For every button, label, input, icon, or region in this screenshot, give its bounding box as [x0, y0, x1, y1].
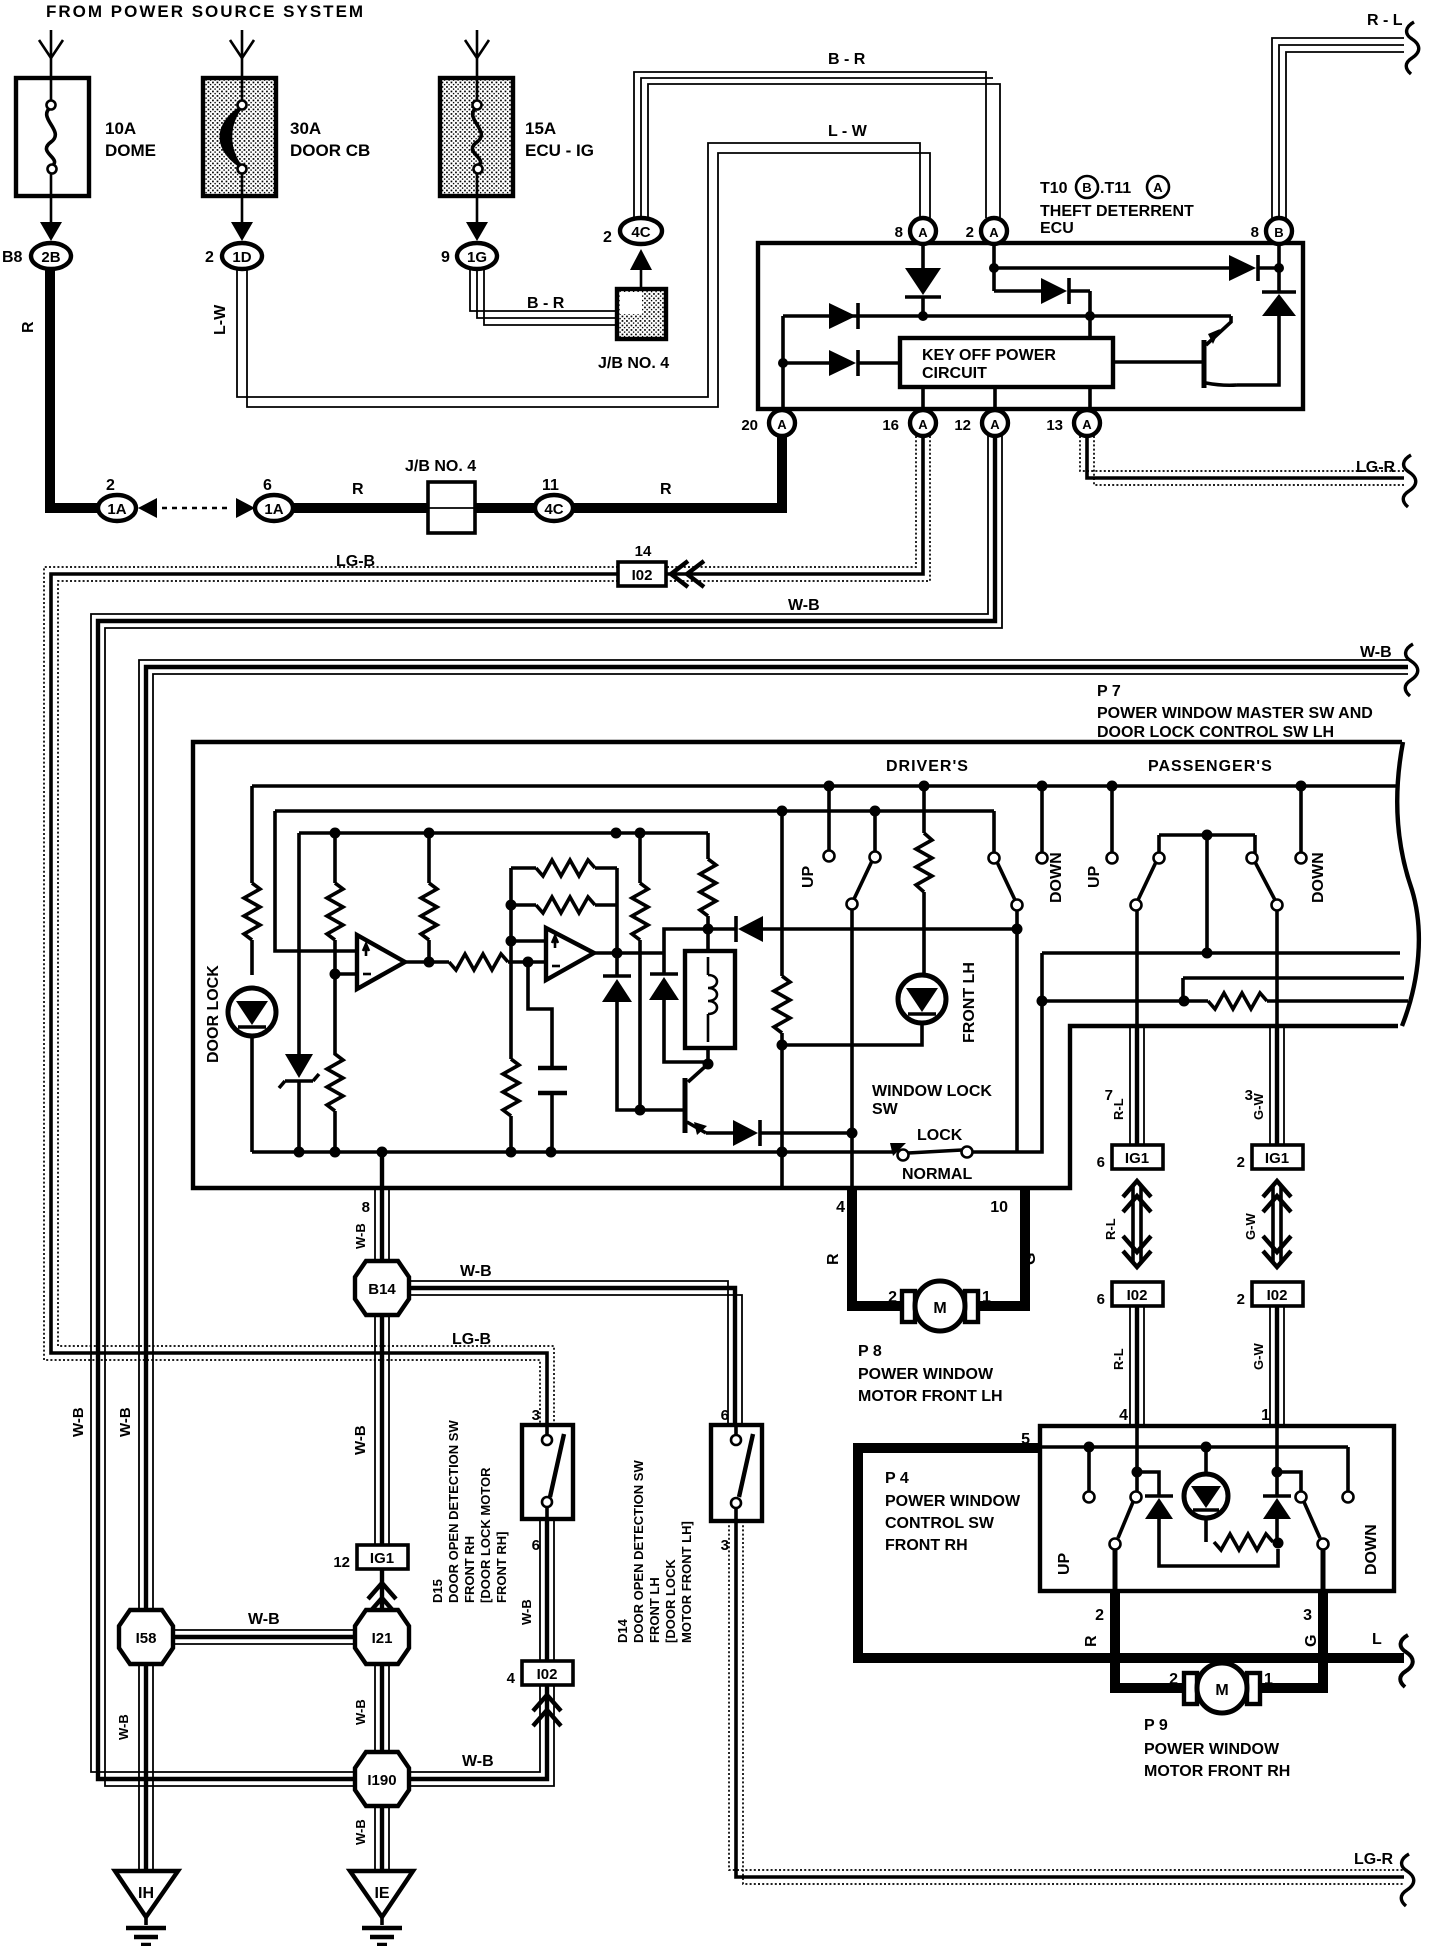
svg-text:B8: B8 [2, 249, 23, 266]
svg-text:DOOR OPEN DETECTION SW: DOOR OPEN DETECTION SW [631, 1460, 646, 1643]
svg-text:MOTOR FRONT RH: MOTOR FRONT RH [1144, 1763, 1290, 1780]
P4 right contact [1343, 1447, 1354, 1503]
wire W-B from B14 right to D14 [409, 1281, 742, 1425]
svg-text:B - R: B - R [828, 51, 866, 68]
LED DOOR LOCK [228, 988, 276, 1152]
svg-text:R: R [352, 481, 364, 498]
label L [1372, 1631, 1382, 1648]
svg-text:2: 2 [1237, 1154, 1245, 1171]
resistor on x252 [244, 883, 260, 975]
label W-B rotated [116, 1714, 131, 1740]
ECU pin 2A [966, 218, 1007, 244]
svg-text:8: 8 [895, 224, 903, 241]
wire W-B I58 to I21 [173, 1630, 355, 1644]
svg-text:DRIVER'S: DRIVER'S [886, 758, 969, 775]
feed arrow into fuse 15A ECU-IG [465, 30, 489, 76]
door switch D15 box [522, 1425, 573, 1519]
svg-text:L - W: L - W [828, 123, 868, 140]
svg-text:FRONT LH: FRONT LH [961, 962, 978, 1043]
label W-B rotated [353, 1819, 368, 1845]
svg-text:2: 2 [1237, 1291, 1245, 1308]
octagon connector B14 [355, 1261, 409, 1315]
line y978 to wavy edge [1183, 978, 1404, 1001]
svg-text:W-B: W-B [353, 1819, 368, 1845]
svg-text:DOWN: DOWN [1363, 1524, 1380, 1575]
label G-W rotated mid column [1243, 1213, 1258, 1240]
feed arrow into fuse 10A DOME [39, 30, 63, 76]
line y833 [299, 828, 708, 839]
wire R thick 1A to J/B No.4 [293, 481, 428, 508]
label W-B rotated [519, 1599, 534, 1625]
connector 2B (B8) [2, 243, 71, 269]
svg-text:CONTROL SW: CONTROL SW [885, 1515, 995, 1532]
title: FROM POWER SOURCE SYSTEM [46, 2, 365, 21]
P4 internal top line [1040, 1442, 1348, 1453]
svg-text:LOCK: LOCK [917, 1127, 963, 1144]
label P7 POWER WINDOW MASTER SW [1097, 683, 1373, 741]
wire I58 down to ground IH [139, 1664, 153, 1871]
svg-text:DOWN: DOWN [1310, 852, 1327, 903]
svg-text:W-B: W-B [352, 1425, 369, 1455]
diode left on y929 [708, 916, 1017, 942]
connector IG1 pin 6 [1097, 1145, 1163, 1171]
label 15A ECU-IG [525, 119, 594, 160]
resistor R-led driver's (x924) [916, 786, 932, 975]
svg-text:LG-R: LG-R [1356, 459, 1396, 476]
continuation hook L [1400, 1635, 1413, 1687]
svg-text:LG-B: LG-B [452, 1331, 491, 1348]
svg-text:W-B: W-B [353, 1223, 368, 1249]
wire x511 vertical chain [506, 868, 517, 1059]
fuse 10A DOME [16, 78, 89, 196]
wire LG-R from D14 pin3 to bottom hook [729, 1521, 1404, 1884]
label LG-R [1356, 459, 1396, 476]
label L-W rotated [212, 304, 229, 335]
svg-text:FRONT RH: FRONT RH [885, 1537, 968, 1554]
wire x1042 from y953 down to lock switch [1017, 953, 1048, 1152]
label T10(B).T11(A) THEFT DETERRENT ECU [1040, 176, 1194, 237]
labels R and G rotated at P8 [825, 1253, 1039, 1265]
svg-text:R: R [825, 1253, 842, 1265]
label R-L rotated mid column [1103, 1218, 1118, 1240]
label W-B [788, 597, 820, 614]
connector I02 pin 14 [618, 543, 666, 586]
svg-text:G: G [1022, 1253, 1039, 1265]
capacitor C1 [538, 1068, 567, 1152]
svg-text:M: M [933, 1300, 946, 1317]
wire L-W from 1D down right up right to ECU pin 8A [237, 143, 930, 407]
dashed junction arrows between 1A and 1A [138, 498, 255, 518]
driver's window UP switch arm [847, 811, 881, 910]
motor pin labels 2 and 1 [888, 1289, 991, 1306]
fuse 15A ECU-IG [440, 78, 513, 196]
svg-text:POWER WINDOW MASTER SW AND: POWER WINDOW MASTER SW AND [1097, 705, 1373, 722]
line y811 [275, 806, 994, 817]
svg-text:R-L: R-L [1103, 1218, 1118, 1240]
svg-text:FRONT RH: FRONT RH [462, 1536, 477, 1603]
label R-L top right [1367, 12, 1403, 29]
wire R-L from ECU pin 8B up to harness hook [1272, 38, 1404, 218]
svg-text:I02: I02 [1267, 1287, 1288, 1304]
label DOOR LOCK rotated [205, 965, 222, 1063]
svg-text:A: A [918, 417, 928, 432]
svg-text:[DOOR LOCK MOTOR: [DOOR LOCK MOTOR [478, 1467, 493, 1603]
svg-text:[DOOR LOCK: [DOOR LOCK [663, 1559, 678, 1643]
diode up on x617 [602, 976, 640, 1110]
diode right on y1133 [706, 1120, 852, 1146]
svg-text:B - R: B - R [527, 295, 565, 312]
svg-text:4C: 4C [631, 224, 650, 241]
svg-text:M: M [1215, 1682, 1228, 1699]
svg-text:1A: 1A [107, 501, 126, 518]
svg-text:WINDOW LOCK: WINDOW LOCK [872, 1083, 992, 1100]
wire W-B horizontal to right hook and down to I58 [139, 660, 1408, 1612]
P4 pin1 entry and diode up right [1263, 1426, 1291, 1543]
wire B-R from 4C up and right to ECU pin 2A [634, 72, 1000, 218]
P4 left contact [1084, 1447, 1095, 1503]
svg-text:16: 16 [882, 417, 899, 434]
label FRONT LH rotated [961, 962, 978, 1043]
P4 right switch arm [1277, 1472, 1329, 1591]
svg-text:I02: I02 [537, 1666, 558, 1683]
svg-text:I190: I190 [367, 1772, 396, 1789]
svg-text:6: 6 [532, 1537, 540, 1554]
svg-text:13: 13 [1046, 417, 1063, 434]
svg-text:W-B: W-B [460, 1263, 492, 1280]
octagon connector I21 [355, 1610, 409, 1664]
diode D2 right on y316 [829, 303, 858, 329]
ECU pin 16A [882, 410, 936, 436]
resistor lower on x335 [327, 974, 343, 1152]
svg-text:G-W: G-W [1251, 1093, 1266, 1120]
node at 8B [1274, 244, 1284, 273]
svg-text:B: B [1274, 225, 1283, 240]
wire I190 down to ground IE [375, 1806, 389, 1871]
svg-text:6: 6 [263, 477, 272, 494]
resistor on x708 from y833 [700, 833, 716, 929]
junction block J/B NO.4 (upper) [598, 289, 669, 372]
passenger right switch arm [1247, 853, 1283, 1027]
svg-text:DOME: DOME [105, 141, 156, 160]
svg-text:6: 6 [1097, 1291, 1105, 1308]
svg-text:15A: 15A [525, 119, 556, 138]
window lock switch arm LOCK/NORMAL [890, 1143, 1017, 1161]
resistor on x511 lower [503, 1059, 519, 1152]
svg-text:DOOR OPEN DETECTION SW: DOOR OPEN DETECTION SW [446, 1420, 461, 1603]
resistor upper on x335 [327, 883, 343, 980]
label LG-B [336, 553, 375, 570]
svg-text:CIRCUIT: CIRCUIT [922, 365, 987, 382]
driver's DOWN contact [1037, 786, 1048, 864]
svg-text:6: 6 [1097, 1154, 1105, 1171]
svg-text:DOOR LOCK CONTROL SW LH: DOOR LOCK CONTROL SW LH [1097, 724, 1334, 741]
connector I02 pin 2 [1237, 1282, 1303, 1308]
left vertical x783 to pin 20A [778, 316, 788, 410]
svg-text:12: 12 [954, 417, 971, 434]
opamp1 output wire and series resistor [405, 954, 546, 970]
svg-text:R: R [660, 481, 672, 498]
svg-text:2B: 2B [41, 249, 60, 266]
transistor Q2 [685, 1064, 708, 1135]
labels WINDOW LOCK SW LOCK NORMAL [872, 1083, 992, 1183]
svg-text:R: R [20, 321, 37, 333]
P4 box POWER WINDOW CONTROL SW FRONT RH [1040, 1426, 1394, 1591]
svg-text:I02: I02 [1127, 1287, 1148, 1304]
pin labels 4 and 10 [836, 1199, 1008, 1216]
svg-text:11: 11 [542, 477, 559, 494]
svg-text:P 9: P 9 [1144, 1717, 1168, 1734]
svg-text:UP: UP [800, 865, 817, 888]
svg-text:2: 2 [1095, 1607, 1104, 1624]
svg-text:14: 14 [635, 543, 652, 560]
wire R thick 4C to ECU pin 20 [573, 434, 782, 513]
svg-text:J/B NO. 4: J/B NO. 4 [405, 458, 476, 475]
ECU box [758, 243, 1303, 409]
label W-B rotated [353, 1699, 368, 1725]
double-headed arrow R-L between IG1 and I02 [1123, 1181, 1151, 1267]
svg-text:W-B: W-B [462, 1753, 494, 1770]
svg-text:MOTOR FRONT LH]: MOTOR FRONT LH] [679, 1521, 694, 1643]
svg-text:THEFT DETERRENT: THEFT DETERRENT [1040, 203, 1194, 220]
motor M P8 [902, 1281, 978, 1331]
P4 resistor zig [1214, 1534, 1284, 1550]
svg-text:A: A [1153, 180, 1163, 195]
wire W-B below B14 to IG1 [375, 1315, 389, 1545]
connector 1G pin 9 [441, 243, 497, 269]
connector 1A pin 2 [98, 477, 136, 521]
relay coil box [685, 924, 735, 1070]
label B-R top [828, 51, 866, 68]
transistor Q1 (PNP) in ECU [1113, 316, 1237, 388]
svg-text:FRONT LH: FRONT LH [647, 1577, 662, 1643]
wire lock-arm down to window lock switch [1012, 910, 1023, 1152]
diode up x664 (coil bypass) [649, 929, 708, 1062]
chevrons into I02 [671, 561, 704, 587]
wire G-W from I02 to P4 pin 1 [1270, 1306, 1284, 1426]
svg-text:3: 3 [721, 1537, 729, 1554]
svg-text:A: A [989, 225, 999, 240]
LED return wire to x782 [782, 1023, 922, 1045]
svg-text:POWER WINDOW: POWER WINDOW [1144, 1741, 1280, 1758]
svg-text:G-W: G-W [1243, 1213, 1258, 1240]
connector 4C pin 11 [475, 477, 573, 521]
diode D1 down (from 8A) [905, 268, 941, 316]
wire R thick from 2B down and right to 1A [45, 269, 100, 508]
svg-text:IG1: IG1 [1265, 1150, 1289, 1167]
svg-text:POWER WINDOW: POWER WINDOW [885, 1493, 1021, 1510]
svg-text:T10: T10 [1040, 180, 1068, 197]
ground IE [350, 1871, 413, 1945]
svg-text:1: 1 [1261, 1407, 1270, 1424]
svg-text:LG-B: LG-B [336, 553, 375, 570]
arrow up into 4C [630, 249, 652, 289]
wire G-W from P7 pin 3 to IG1 [1270, 1026, 1284, 1145]
label LG-B lower [452, 1331, 491, 1348]
svg-text:I21: I21 [372, 1630, 393, 1647]
node dots on bus y786 [824, 781, 1307, 792]
labels R-L rotated and 4 [1111, 1348, 1128, 1424]
ECU pin 20A [741, 410, 795, 436]
label column D15 DOOR OPEN DETECTION SW [430, 1420, 509, 1603]
svg-text:KEY OFF POWER: KEY OFF POWER [922, 347, 1056, 364]
svg-text:IH: IH [138, 1885, 154, 1902]
svg-text:G: G [1303, 1635, 1320, 1647]
ECU pin 8B [1251, 218, 1292, 244]
ECU pin 8A [895, 218, 936, 244]
motor M P9 [1184, 1663, 1260, 1713]
svg-text:LG-R: LG-R [1354, 1851, 1394, 1868]
P7 pin 4 thick wire to motor [847, 1188, 906, 1306]
connector 1A pin 6 [255, 477, 293, 521]
resistor driver's left (x782) [774, 811, 790, 1188]
svg-text:2: 2 [888, 1289, 897, 1306]
opamp1 minus input wire [335, 972, 357, 976]
KEY OFF box outputs to pins 16A 12A 13A [923, 387, 1090, 410]
svg-text:1: 1 [1264, 1671, 1273, 1688]
svg-text:2: 2 [966, 224, 974, 241]
svg-text:IG1: IG1 [1125, 1150, 1149, 1167]
svg-text:DOOR LOCK: DOOR LOCK [205, 965, 222, 1063]
bus line y786 [252, 784, 1396, 788]
svg-text:D14: D14 [615, 1618, 630, 1643]
P7 pin 10 thick wire to motor [974, 1188, 1030, 1306]
svg-text:R: R [1083, 1635, 1100, 1647]
line y268 to 8B node [994, 266, 1279, 270]
connector I02 pin 4 [507, 1661, 573, 1687]
label W-B rotated below B14 [352, 1425, 369, 1455]
wire LG-R from ECU 13A to right hook [1080, 436, 1404, 485]
motor pin labels 2 and 1 [1169, 1671, 1273, 1688]
svg-text:2: 2 [1169, 1671, 1178, 1688]
window lock switch bus [252, 1147, 895, 1158]
svg-text:POWER WINDOW: POWER WINDOW [858, 1366, 994, 1383]
passenger left switch arm [1131, 853, 1165, 1027]
wire x275 line y811 to opamp1 plus input [275, 811, 357, 951]
svg-text:4: 4 [836, 1199, 845, 1216]
continuation hook R-L [1406, 22, 1419, 74]
svg-text:ECU: ECU [1040, 220, 1074, 237]
svg-text:W-B: W-B [116, 1714, 131, 1740]
svg-text:SW: SW [872, 1101, 899, 1118]
svg-text:8: 8 [362, 1199, 370, 1216]
wire from UP arm down to pin 4 [847, 909, 858, 1188]
svg-text:B14: B14 [368, 1281, 396, 1298]
wire fuse2 to 1D [231, 196, 253, 241]
svg-text:A: A [1082, 417, 1092, 432]
connector IG1 pin 12 [333, 1545, 408, 1571]
svg-text:IG1: IG1 [370, 1550, 394, 1567]
octagon connector I190 [355, 1752, 409, 1806]
svg-text:W-B: W-B [519, 1599, 534, 1625]
zener diode on x299 [279, 1054, 319, 1152]
svg-text:L-W: L-W [212, 304, 229, 335]
wire x429 from y833 through resistor to output [421, 833, 437, 968]
P4 pin4 entry and left switch arm [1110, 1426, 1143, 1591]
wire x335 from y833 [333, 833, 337, 883]
svg-text:R-L: R-L [1111, 1348, 1126, 1370]
svg-text:P 8: P 8 [858, 1343, 882, 1360]
ECU pin 13A [1046, 410, 1100, 436]
thick wire pin5 to L hook [853, 1443, 1404, 1658]
label P9 POWER WINDOW MOTOR FRONT RH [1144, 1717, 1290, 1780]
driver's UP contact [824, 786, 835, 862]
svg-text:1: 1 [982, 1289, 991, 1306]
labels 7 and R-L rotated [1105, 1087, 1126, 1120]
wire x252 from bus y786 [250, 786, 254, 883]
label W-B [248, 1611, 280, 1628]
junction block J/B NO.4 (lower) [405, 458, 476, 533]
continuation hook LG-R [1403, 455, 1416, 507]
labels 3 and G-W rotated [1245, 1087, 1266, 1120]
wire pin 8 stub to B14 [362, 1152, 389, 1262]
svg-text:R - L: R - L [1367, 12, 1403, 29]
label 10A DOME [105, 119, 156, 160]
wire fuse1 to 2B [40, 196, 62, 241]
ECU pin 12A [954, 410, 1008, 436]
opamp2 output node x617 [594, 868, 664, 976]
driver's window-lock side switch arm [989, 811, 1023, 911]
wire B-R from 1G to J/B NO.4 [470, 269, 619, 325]
labels G-W rotated and 1 [1251, 1343, 1270, 1424]
svg-text:D15: D15 [430, 1579, 445, 1603]
wire x299 line y833 down to zener [297, 833, 301, 1054]
svg-text:4: 4 [1119, 1407, 1128, 1424]
diode D3 right on y363 [783, 350, 900, 376]
svg-text:FRONT RH]: FRONT RH] [494, 1532, 509, 1604]
wire LG-B from ECU 16A to I02 and down the left side to D15 [44, 436, 930, 1425]
LED FRONT LH [898, 975, 946, 1023]
label P4 POWER WINDOW CONTROL SW FRONT RH [885, 1470, 1021, 1554]
ground IH [115, 1871, 178, 1945]
continuation hook W-B [1405, 644, 1418, 696]
svg-text:P 7: P 7 [1097, 683, 1121, 700]
passenger yoke [1159, 830, 1255, 949]
passenger UP contact [1107, 786, 1118, 864]
svg-text:P 4: P 4 [885, 1470, 909, 1487]
wire 2A down [989, 244, 999, 291]
label UP passenger [1086, 865, 1103, 888]
svg-text:A: A [918, 225, 928, 240]
wire fuse3 to 1G [466, 196, 488, 241]
svg-text:.T11: .T11 [1100, 180, 1131, 197]
svg-text:1A: 1A [264, 501, 283, 518]
label 30A DOOR CB [290, 119, 370, 160]
svg-text:NORMAL: NORMAL [902, 1166, 972, 1183]
svg-text:A: A [777, 417, 787, 432]
svg-text:W-B: W-B [70, 1407, 87, 1437]
svg-text:UP: UP [1086, 865, 1103, 888]
svg-text:A: A [990, 417, 1000, 432]
svg-text:2: 2 [205, 249, 214, 266]
svg-text:R-L: R-L [1111, 1098, 1126, 1120]
svg-text:8: 8 [1251, 224, 1259, 241]
label DRIVER'S [886, 758, 969, 775]
svg-text:1G: 1G [467, 249, 487, 266]
svg-text:4: 4 [507, 1670, 516, 1687]
label DOWN driver's [1048, 852, 1065, 903]
op-amp U1 [357, 935, 405, 989]
feedback resistor upper [511, 860, 617, 876]
door switch D14 box [711, 1425, 762, 1521]
chevron arrow up below IG1-12 [368, 1569, 396, 1614]
svg-text:FROM POWER SOURCE SYSTEM: FROM POWER SOURCE SYSTEM [46, 2, 365, 21]
svg-text:30A: 30A [290, 119, 321, 138]
label B-R [527, 295, 565, 312]
svg-text:IE: IE [374, 1885, 389, 1902]
wire I21 down to I190 [375, 1664, 389, 1755]
label W-B near I190 [462, 1753, 494, 1770]
wire R-L from I02 to P4 pin 4 [1130, 1306, 1144, 1426]
